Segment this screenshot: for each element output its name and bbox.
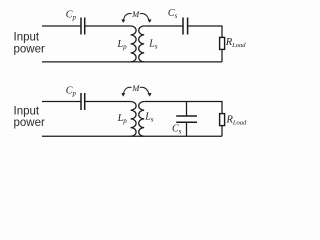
inductor L_s winding (humps bulge left)	[139, 26, 145, 62]
capacitor C_s (series, secondary) plates	[183, 18, 188, 35]
arrowhead left (bottom circuit)	[121, 93, 125, 97]
svg-text:Cs: Cs	[168, 8, 178, 20]
wire: primary top right segment to coil	[85, 25, 131, 27]
wire: primary top right segment to coil	[85, 101, 131, 103]
svg-text:power: power	[14, 117, 45, 129]
mutual coupling arrow left	[124, 14, 132, 20]
mutual coupling arrow left	[124, 87, 132, 93]
wire: bottom rail	[42, 61, 222, 63]
svg-text:Ls: Ls	[148, 38, 158, 50]
mutual coupling arrow right	[140, 87, 149, 93]
svg-text:Lp: Lp	[117, 39, 128, 51]
svg-text:Ls: Ls	[144, 112, 154, 124]
inductor L_p winding (humps bulge right)	[131, 26, 137, 62]
svg-text:RLoad: RLoad	[225, 37, 247, 49]
wire: primary top left segment	[42, 101, 81, 103]
svg-text:Lp: Lp	[117, 113, 128, 125]
arrowhead right (bottom circuit)	[148, 93, 152, 97]
svg-text:power: power	[14, 43, 45, 55]
shunt capacitor C_s stub bottom	[186, 122, 188, 136]
mutual coupling arrow right	[140, 14, 149, 20]
wire: right edge below resistor	[221, 126, 223, 137]
arrowhead right (top circuit)	[148, 19, 152, 23]
wire: secondary top to C_s	[144, 25, 183, 27]
wire: primary top left segment	[42, 25, 81, 27]
svg-text:Cp: Cp	[66, 10, 77, 22]
svg-text:Input: Input	[14, 32, 40, 44]
svg-text:Cs: Cs	[172, 123, 182, 135]
svg-text:M: M	[131, 83, 140, 93]
svg-text:Cp: Cp	[66, 86, 77, 98]
shunt capacitor C_s plates	[176, 116, 197, 122]
wire: secondary top to right edge and down	[188, 26, 222, 37]
svg-text:RLoad: RLoad	[226, 114, 248, 126]
shunt capacitor C_s stub top	[186, 102, 188, 117]
inductor L_p winding (humps bulge right)	[131, 102, 137, 137]
wire: secondary top rail	[144, 102, 222, 114]
resistor R_Load body	[220, 114, 225, 126]
capacitor C_p (series, primary) plates	[81, 93, 85, 110]
arrowhead left (top circuit)	[121, 19, 125, 23]
inductor L_s winding (humps bulge left)	[139, 102, 145, 137]
wire: bottom rail	[42, 135, 222, 137]
capacitor C_p (series, primary) plates	[81, 18, 85, 35]
resistor R_Load body	[220, 37, 225, 49]
svg-text:M: M	[131, 9, 140, 19]
wire: right edge below resistor	[221, 49, 223, 62]
svg-text:Input: Input	[14, 105, 40, 117]
